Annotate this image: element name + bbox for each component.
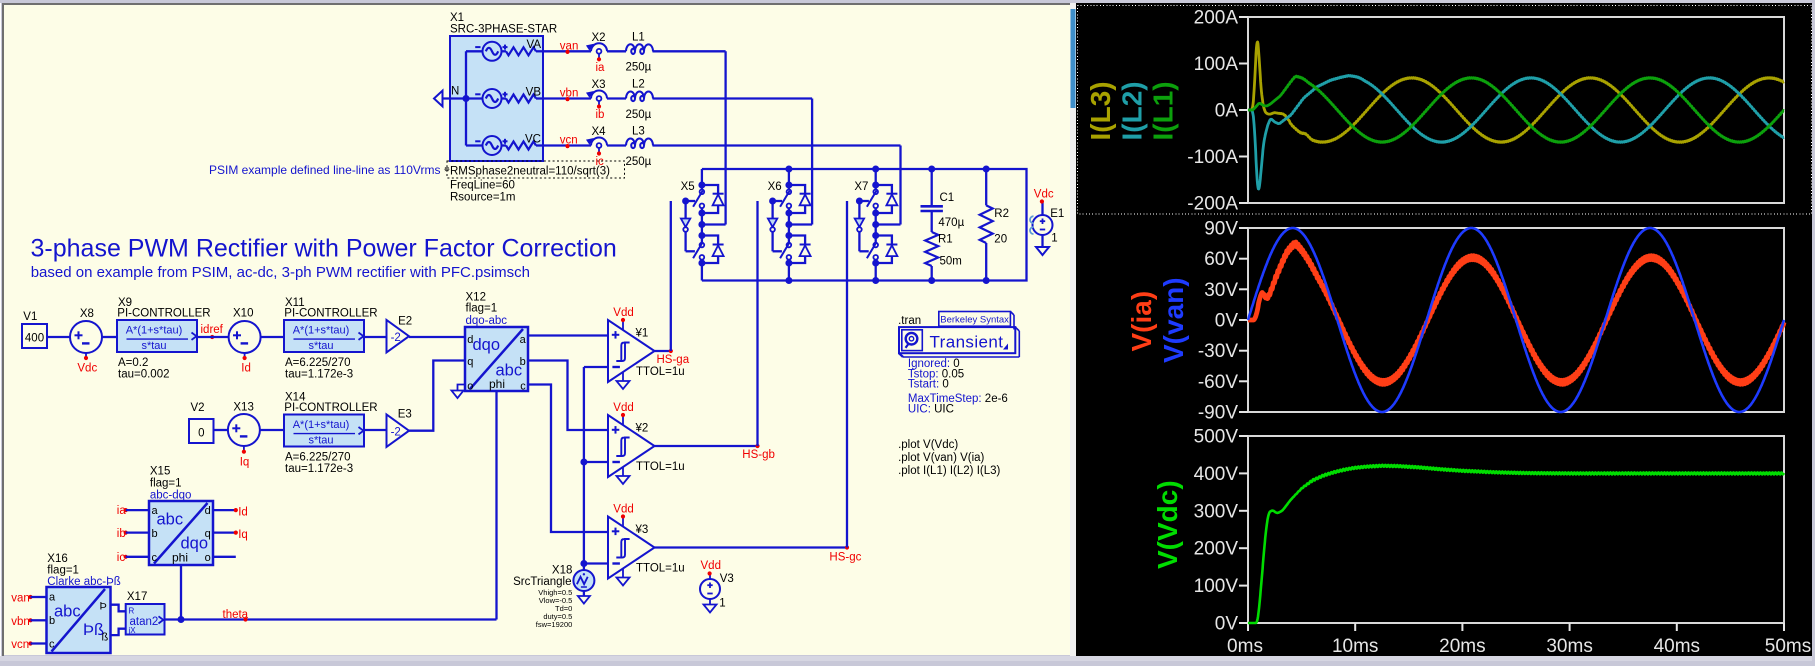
svg-text:100A: 100A	[1194, 54, 1239, 75]
wire L2 to bridge leg B	[653, 97, 813, 99]
PI controller X9	[117, 320, 197, 352]
output wire 3	[655, 546, 848, 548]
svg-text:VB: VB	[526, 86, 542, 98]
inductor L2	[626, 92, 653, 102]
summer X13	[228, 414, 260, 446]
wire X17 out	[165, 618, 182, 620]
svg-text:s*tau: s*tau	[141, 340, 166, 352]
svg-text:VC: VC	[525, 133, 541, 145]
svg-text:30ms: 30ms	[1546, 636, 1592, 657]
svg-text:o: o	[467, 381, 473, 393]
svg-text:Id: Id	[238, 506, 248, 518]
svg-text:20: 20	[994, 234, 1007, 246]
svg-text:Vdc: Vdc	[1034, 188, 1054, 200]
capacitor C1	[931, 169, 933, 205]
inductor L3	[626, 139, 653, 149]
svg-text:TTOL=1u: TTOL=1u	[636, 366, 685, 378]
wire triangle carrier to comparators	[583, 367, 585, 570]
svg-text:d: d	[205, 505, 211, 517]
net label ib	[597, 104, 601, 108]
svg-text:I(L3): I(L3)	[1085, 81, 1116, 140]
svg-text:vcn: vcn	[11, 639, 29, 651]
net label Iq at X13	[243, 446, 245, 450]
plot V(Vdc) frame	[1248, 436, 1784, 623]
svg-text:0ms: 0ms	[1227, 636, 1263, 657]
svg-text:.tran: .tran	[898, 315, 921, 327]
svg-text:s*tau: s*tau	[308, 435, 333, 447]
svg-text:ib: ib	[596, 109, 605, 121]
svg-text:V2: V2	[191, 402, 205, 414]
svg-text:b: b	[520, 356, 526, 368]
svg-text:Vdd: Vdd	[613, 504, 633, 516]
gate input X5	[686, 200, 696, 202]
svg-text:b: b	[49, 615, 55, 627]
svg-text:1: 1	[1051, 233, 1057, 245]
junction	[928, 277, 935, 284]
svg-text:d: d	[467, 334, 473, 346]
current probe X4	[591, 138, 607, 146]
svg-text:RMSphase2neutral=110/sqrt(3): RMSphase2neutral=110/sqrt(3)	[450, 166, 610, 178]
svg-text:idref: idref	[201, 324, 224, 336]
svg-text:E1: E1	[1050, 208, 1064, 220]
svg-text:V3: V3	[720, 573, 734, 585]
svg-text:Clarke abc-Þß: Clarke abc-Þß	[47, 576, 121, 588]
svg-text:ia: ia	[596, 62, 606, 74]
svg-text:b: b	[152, 528, 158, 540]
svg-text:¥1: ¥1	[635, 328, 649, 340]
selection marquee around plot 1	[1078, 6, 1812, 215]
svg-text:X5: X5	[681, 181, 695, 193]
three-phase source X1	[450, 36, 543, 161]
svg-text:tau=1.172e-3: tau=1.172e-3	[285, 463, 353, 475]
wire	[197, 336, 229, 338]
comparator 2	[608, 415, 655, 477]
svg-text:200A: 200A	[1194, 8, 1239, 29]
wire HS-gc riser	[846, 201, 848, 548]
wire X15 phi down	[180, 565, 182, 620]
dc source V1	[22, 324, 47, 348]
svg-text:phi: phi	[489, 377, 505, 391]
svg-text:I(L1): I(L1)	[1148, 81, 1179, 140]
wire X12 c to comparator 3	[528, 385, 608, 533]
svg-text:L1: L1	[632, 31, 645, 43]
wire X16 p to X17	[111, 605, 126, 612]
diode lower X7	[876, 236, 892, 245]
plot 3 x axis labels	[1247, 623, 1249, 631]
summer X8	[70, 321, 102, 353]
svg-text:Vdd: Vdd	[613, 402, 633, 414]
svg-text:tau=0.002: tau=0.002	[118, 368, 169, 380]
svg-text:X4: X4	[592, 126, 607, 138]
wire E3 to X12 q	[409, 361, 465, 431]
svg-text:0V: 0V	[1215, 614, 1239, 635]
PI controller X14	[284, 415, 364, 447]
ground at X12 o pin	[458, 385, 466, 391]
curve V(van)	[1248, 228, 1784, 412]
junction	[872, 277, 879, 284]
svg-text:ic: ic	[596, 156, 605, 168]
svg-text:3-phase PWM Rectifier with Pow: 3-phase PWM Rectifier with Power Factor …	[31, 235, 617, 263]
plot 2 y axis labels	[1239, 227, 1248, 229]
AC source VB	[466, 97, 483, 99]
svg-text:Vdd: Vdd	[701, 560, 721, 572]
svg-text:s*tau: s*tau	[308, 340, 333, 352]
junction theta	[178, 616, 185, 623]
resistor R1	[925, 232, 938, 266]
PI controller X11	[284, 320, 364, 352]
svg-text:HS-ga: HS-ga	[657, 354, 690, 366]
svg-text:c: c	[49, 639, 55, 651]
svg-text:Iq: Iq	[238, 529, 248, 541]
svg-text:250µ: 250µ	[626, 62, 652, 74]
svg-text:Vdd: Vdd	[613, 307, 633, 319]
plot I(L1) I(L2) I(L3) frame	[1248, 17, 1784, 203]
source resistor VC	[502, 144, 507, 146]
svg-text:0A: 0A	[1215, 101, 1239, 122]
atan2 block X17	[126, 604, 165, 635]
ground at E1	[1041, 235, 1043, 247]
plot 1 y axis labels	[1239, 16, 1248, 18]
net label Vdc at X8	[85, 353, 87, 357]
svg-text:V1: V1	[23, 311, 37, 323]
svg-text:TTOL=1u: TTOL=1u	[636, 461, 685, 473]
svg-text:V(Vdc): V(Vdc)	[1152, 480, 1183, 569]
svg-text:-2: -2	[391, 332, 401, 344]
source resistor VA	[502, 50, 507, 52]
neutral wire	[443, 97, 466, 99]
ground comparator 1	[622, 372, 624, 381]
ground at X18	[583, 591, 585, 596]
svg-text:fsw=19200: fsw=19200	[536, 620, 573, 629]
curve I(L2)	[1248, 75, 1784, 189]
svg-text:a: a	[520, 334, 527, 346]
svg-text:dqo: dqo	[473, 336, 501, 354]
neutral arrow	[434, 91, 443, 107]
svg-text:Id: Id	[241, 363, 251, 375]
AC source VA	[466, 50, 483, 52]
svg-text:X13: X13	[233, 402, 253, 414]
Vdd pin comparator 2	[622, 415, 624, 425]
svg-text:-200A: -200A	[1187, 194, 1238, 215]
svg-text:40ms: 40ms	[1654, 636, 1700, 657]
svg-text:250µ: 250µ	[626, 156, 652, 168]
svg-text:1: 1	[719, 598, 725, 610]
svg-text:-100A: -100A	[1187, 147, 1238, 168]
svg-text:flag=1: flag=1	[466, 302, 498, 314]
svg-text:vbn: vbn	[11, 616, 30, 628]
diode lower X6	[789, 236, 805, 245]
net label ic	[597, 151, 601, 155]
svg-text:A=6.225/270: A=6.225/270	[285, 357, 351, 369]
svg-text:HS-gb: HS-gb	[742, 449, 775, 461]
svg-text:10ms: 10ms	[1332, 636, 1378, 657]
wire X12 a to comparator 1	[528, 334, 608, 336]
svg-text:A*(1+s*tau): A*(1+s*tau)	[126, 324, 183, 336]
svg-text:Vdc: Vdc	[77, 363, 97, 375]
svg-text:L3: L3	[632, 126, 645, 138]
svg-text:-60V: -60V	[1198, 372, 1238, 393]
svg-text:90V: 90V	[1204, 219, 1238, 240]
wire X12 b to comparator 2	[528, 361, 608, 431]
svg-text:X2: X2	[592, 32, 606, 44]
wire L1 to bridge leg A	[653, 50, 726, 52]
triangle source X18	[573, 570, 594, 591]
wire	[260, 429, 284, 431]
svg-text:E2: E2	[398, 316, 412, 328]
junction	[983, 166, 990, 173]
svg-text:0: 0	[198, 428, 204, 440]
net label Vdc at E1	[1040, 199, 1044, 203]
wire row van	[543, 50, 591, 52]
svg-text:0V: 0V	[1215, 311, 1239, 332]
output wire 1	[655, 350, 671, 352]
svg-text:X8: X8	[80, 308, 94, 320]
dc source V3	[700, 579, 720, 599]
svg-text:N: N	[451, 86, 459, 98]
X1 parameters	[447, 161, 625, 178]
controlled source E1	[1033, 215, 1053, 235]
svg-text:R1: R1	[938, 234, 953, 246]
svg-text:ß: ß	[101, 632, 108, 644]
Vdd pin comparator 1	[622, 320, 624, 330]
svg-text:R: R	[129, 607, 135, 616]
svg-text:based on example from PSIM, ac: based on example from PSIM, ac-dc, 3-ph …	[31, 264, 530, 281]
svg-text:abc-dqo: abc-dqo	[150, 490, 192, 502]
svg-text:A=0.2: A=0.2	[118, 357, 148, 369]
gate input X7	[859, 200, 869, 202]
svg-text:Iq: Iq	[240, 457, 250, 469]
svg-text:20ms: 20ms	[1439, 636, 1485, 657]
junction	[928, 166, 935, 173]
svg-text:.plot I(L1) I(L2) I(L3): .plot I(L1) I(L2) I(L3)	[898, 465, 1000, 477]
svg-text:250µ: 250µ	[626, 109, 652, 121]
junction	[872, 166, 879, 173]
svg-text:-2: -2	[391, 427, 401, 439]
transformation block X15 abc-dqo	[149, 501, 213, 565]
svg-text:100V: 100V	[1194, 576, 1239, 597]
svg-text:L2: L2	[632, 79, 645, 91]
summer X10	[229, 321, 261, 353]
svg-text:Rsource=1m: Rsource=1m	[450, 192, 516, 204]
svg-text:R2: R2	[994, 208, 1009, 220]
curve V(Vdc)	[1248, 465, 1784, 623]
svg-text:PSIM example defined line-line: PSIM example defined line-line as 110Vrm…	[209, 163, 440, 177]
svg-text:TTOL=1u: TTOL=1u	[636, 562, 685, 574]
svg-text:FreqLine=60: FreqLine=60	[450, 180, 515, 192]
wire	[364, 429, 387, 431]
svg-text:300V: 300V	[1194, 501, 1239, 522]
net label ia	[597, 57, 601, 61]
svg-text:I(L2): I(L2)	[1117, 81, 1148, 140]
svg-text:-30V: -30V	[1198, 341, 1238, 362]
svg-text:tau=1.172e-3: tau=1.172e-3	[285, 368, 353, 380]
svg-text:200V: 200V	[1194, 539, 1239, 560]
gate input X6	[773, 200, 783, 202]
diode upper X6	[789, 185, 805, 194]
svg-text:c: c	[520, 381, 526, 393]
scrollbar thumb	[1071, 9, 1076, 108]
X15 o stub	[213, 556, 236, 558]
svg-text:V(van): V(van)	[1158, 277, 1189, 363]
dc source V2	[189, 419, 214, 443]
svg-text:¥3: ¥3	[635, 524, 649, 536]
svg-text:abc: abc	[54, 603, 81, 621]
wire positive dc bus	[702, 169, 1027, 281]
svg-text:a: a	[49, 592, 56, 604]
ground comparator 2	[622, 467, 624, 476]
plot 3 y axis labels	[1239, 435, 1248, 437]
svg-text:dqo-abc: dqo-abc	[466, 315, 508, 327]
svg-text:PI-CONTROLLER: PI-CONTROLLER	[117, 307, 210, 319]
svg-text:X10: X10	[233, 308, 253, 320]
wire X12 phi to theta	[495, 391, 497, 620]
wire	[364, 336, 387, 338]
wire theta	[181, 618, 497, 620]
svg-text:A*(1+s*tau): A*(1+s*tau)	[293, 324, 350, 336]
Vdd pin comparator 3	[622, 517, 624, 527]
gain E3	[387, 415, 410, 447]
svg-text:Þ: Þ	[99, 600, 106, 612]
transformation block X16 Clarke	[47, 587, 111, 653]
node N junction	[463, 95, 470, 102]
svg-text:PI-CONTROLLER: PI-CONTROLLER	[284, 307, 377, 319]
wire X16 beta to X17	[111, 629, 126, 635]
junction	[785, 277, 792, 284]
svg-text:50m: 50m	[940, 256, 962, 268]
comparator 1	[608, 320, 655, 382]
svg-text:X7: X7	[854, 181, 868, 193]
svg-text:HS-gc: HS-gc	[829, 552, 861, 564]
transformation block X12 dqo-abc	[465, 327, 528, 391]
svg-text:500V: 500V	[1194, 427, 1239, 448]
svg-text:A=6.225/270: A=6.225/270	[285, 451, 351, 463]
svg-text:V(ia): V(ia)	[1126, 291, 1157, 352]
svg-text:phi: phi	[172, 550, 188, 564]
svg-text:A*(1+s*tau): A*(1+s*tau)	[293, 419, 350, 431]
plot V(van) V(ia) frame	[1248, 228, 1784, 412]
svg-text:30V: 30V	[1204, 280, 1238, 301]
svg-text:-90V: -90V	[1198, 403, 1238, 424]
wire row vbn	[543, 97, 591, 99]
diode lower X5	[702, 236, 718, 245]
phase tap X5	[702, 223, 726, 225]
curve I(L3)	[1248, 42, 1784, 142]
svg-text:PI-CONTROLLER: PI-CONTROLLER	[284, 402, 377, 414]
net label Vdd at V3	[708, 571, 712, 575]
svg-text:a: a	[152, 505, 159, 517]
svg-text:o: o	[205, 552, 211, 564]
svg-text:X17: X17	[127, 591, 147, 603]
svg-text:SRC-3PHASE-STAR: SRC-3PHASE-STAR	[450, 24, 557, 36]
wire row vcn	[543, 144, 591, 146]
svg-text:q: q	[205, 528, 211, 540]
curve I(L1)	[1248, 76, 1784, 142]
wire	[409, 336, 465, 338]
output wire 2	[655, 445, 758, 447]
svg-text:flag=1: flag=1	[150, 478, 182, 490]
resistor R2	[985, 169, 987, 205]
svg-text:¥2: ¥2	[635, 423, 649, 435]
svg-text:50ms: 50ms	[1765, 636, 1811, 657]
wire	[102, 336, 117, 338]
svg-text:c: c	[152, 552, 158, 564]
svg-text:jX: jX	[128, 626, 137, 635]
svg-text:flag=1: flag=1	[47, 565, 79, 577]
net label Iq at X15	[213, 531, 236, 533]
wire HS-ga riser	[670, 201, 672, 351]
current probe X2	[591, 43, 607, 51]
svg-text:470µ: 470µ	[938, 217, 964, 229]
inductor L1	[626, 44, 653, 54]
phase tap X6	[789, 223, 812, 225]
source resistor VB	[502, 97, 507, 99]
junction	[983, 277, 990, 284]
svg-text:abc: abc	[157, 511, 184, 529]
svg-text:400V: 400V	[1194, 464, 1239, 485]
svg-text:Berkeley Syntax: Berkeley Syntax	[940, 314, 1009, 325]
svg-text:400: 400	[25, 333, 44, 345]
wire HS-gb riser	[756, 201, 758, 446]
diode upper X5	[702, 185, 718, 194]
svg-text:X1: X1	[450, 12, 464, 24]
svg-text:C1: C1	[940, 192, 955, 204]
wire	[214, 429, 229, 431]
current probe X3	[591, 91, 607, 99]
diode upper X7	[876, 185, 892, 194]
svg-text:X18: X18	[552, 565, 572, 577]
phase tap X7	[876, 223, 901, 225]
wire	[47, 336, 70, 338]
svg-text:X15: X15	[150, 466, 170, 478]
junction	[785, 166, 792, 173]
svg-text:X6: X6	[768, 181, 782, 193]
net label Id at X10	[244, 353, 246, 357]
net label Id at X15	[213, 509, 236, 511]
svg-text:.plot V(Vdc): .plot V(Vdc)	[898, 439, 958, 451]
wire L3 to bridge leg C	[653, 144, 901, 146]
svg-text:Transient: Transient	[930, 333, 1004, 352]
svg-text:X3: X3	[592, 79, 606, 91]
ground comparator 3	[622, 569, 624, 578]
svg-text:UIC: UIC: UIC: UIC	[908, 403, 954, 415]
ground at V3	[709, 599, 711, 605]
comparator 3	[608, 517, 655, 579]
svg-text:SrcTriangle: SrcTriangle	[513, 576, 571, 588]
svg-text:E3: E3	[398, 409, 412, 421]
AC source VC	[466, 144, 483, 146]
svg-text:Tstart: 0: Tstart: 0	[908, 379, 949, 391]
gain E2	[387, 320, 410, 352]
svg-text:60V: 60V	[1204, 249, 1238, 270]
svg-text:VA: VA	[527, 39, 542, 51]
curve V(ia)	[1248, 242, 1784, 384]
svg-text:van: van	[11, 592, 30, 604]
wire	[261, 336, 284, 338]
svg-text:X16: X16	[47, 553, 67, 565]
svg-text:.plot V(van) V(ia): .plot V(van) V(ia)	[898, 452, 984, 464]
svg-text:q: q	[467, 356, 473, 368]
